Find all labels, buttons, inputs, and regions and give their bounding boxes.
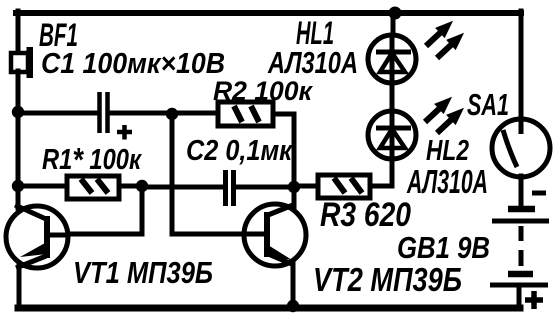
wire VT2 emitter drop <box>291 263 296 306</box>
wire R1 row left <box>18 184 67 189</box>
wire VT1 emitter drop <box>17 264 22 306</box>
svg-text:SA1: SA1 <box>467 87 509 122</box>
node top rail LED junction dot <box>389 7 402 20</box>
svg-text:R2 100к: R2 100к <box>213 76 313 106</box>
node A junction dot <box>166 108 178 120</box>
arrow HL2 light ray 1 <box>420 92 457 127</box>
node VT1 base junction dot <box>136 180 148 192</box>
svg-text:АЛ310А: АЛ310А <box>267 45 358 80</box>
wire VT1 base node to C2 <box>142 185 223 190</box>
LED HL1 <box>368 35 416 83</box>
node left rail R1 junction dot <box>12 180 24 192</box>
wire VT1 base drop <box>70 186 142 234</box>
wire R3 row left <box>294 184 318 189</box>
wire R1 to VT1 base node <box>119 184 142 189</box>
svg-text:C2 0,1мк: C2 0,1мк <box>186 135 293 167</box>
wire left rail BF1 to VT1 collector <box>16 71 21 208</box>
wire right rail upper <box>519 11 524 120</box>
wire C2 right <box>236 185 294 190</box>
svg-text:АЛ310А: АЛ310А <box>406 163 488 200</box>
svg-text:R3 620: R3 620 <box>320 196 411 234</box>
node VT2 collector junction dot <box>288 181 300 193</box>
svg-text:VT2 МП39Б: VT2 МП39Б <box>313 261 462 298</box>
wire top rail to HL1 <box>391 13 396 36</box>
transistor VT1 <box>6 205 70 268</box>
node bottom rail VT2 emitter dot <box>287 300 299 312</box>
wire HL1 to HL2 <box>390 83 395 112</box>
arrow HL1 light ray 1 <box>421 16 458 51</box>
svg-text:R1* 100к: R1* 100к <box>42 141 142 178</box>
resistor R2 <box>218 102 273 126</box>
wire node A to R2 <box>172 111 218 116</box>
node left rail C1 junction dot <box>12 106 24 118</box>
wire node A vertical to VT2 base <box>172 114 246 234</box>
switch SA1 <box>492 119 550 177</box>
svg-text:GB1 9В: GB1 9В <box>397 230 490 265</box>
battery GB1 <box>490 193 549 309</box>
transistor VT2 <box>244 204 306 266</box>
arrow HL1 light ray 2 <box>432 28 469 63</box>
wire R3 right up to HL2 <box>370 160 392 186</box>
wire left rail above BF1 <box>16 11 21 54</box>
resistor R1 <box>67 176 119 199</box>
wire C1 row left <box>18 111 97 116</box>
wire C1 row right <box>110 111 172 116</box>
wire top rail <box>16 10 521 16</box>
speaker BF1 <box>11 47 33 78</box>
arrow HL2 light ray 2 <box>432 103 469 138</box>
wire R2 right with corner down <box>273 114 294 187</box>
capacitor C2 <box>226 170 234 206</box>
LED HL2 <box>368 111 416 159</box>
wire SA1 to battery <box>519 176 524 208</box>
resistor R3 <box>318 175 370 198</box>
svg-text:C1 100мк×10В: C1 100мк×10В <box>41 48 225 80</box>
wire VT2 collector drop <box>292 187 297 208</box>
capacitor C1 <box>100 92 133 140</box>
svg-text:VT1 МП39Б: VT1 МП39Б <box>73 255 213 290</box>
wire bottom rail <box>18 305 520 312</box>
